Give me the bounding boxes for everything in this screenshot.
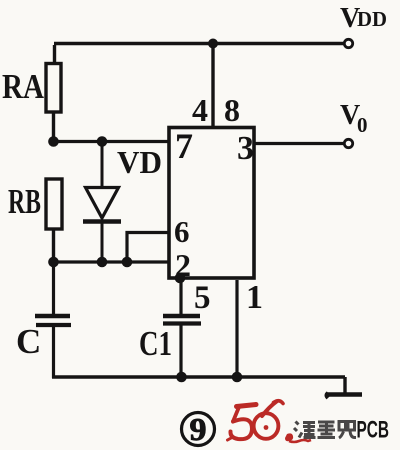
- svg-text:8: 8: [224, 92, 240, 128]
- node diode bottom: [97, 257, 108, 268]
- watermark red 6: [254, 401, 283, 439]
- watermark circled 9: [182, 411, 215, 447]
- watermark red squiggle: [289, 440, 311, 442]
- wire pin 3 to output: [254, 142, 344, 145]
- wire bottom rail: [52, 375, 345, 378]
- terminal VDD: [344, 39, 352, 47]
- node C1 bottom: [176, 372, 187, 383]
- node top junction: [208, 39, 218, 49]
- resistor RA: [46, 64, 61, 113]
- wire RB bottom to node B: [52, 229, 55, 263]
- node pin1 bottom: [232, 372, 243, 383]
- svg-text:VD: VD: [117, 144, 162, 180]
- ground: [327, 393, 363, 398]
- wire pin 5 to capacitor C1: [179, 278, 182, 314]
- svg-text:1: 1: [246, 279, 263, 316]
- svg-text:RA: RA: [2, 67, 45, 106]
- watermark red 5: [228, 405, 257, 441]
- wire top rail VDD: [54, 42, 344, 45]
- watermark gray glyph 3: [339, 422, 356, 439]
- svg-text:RB: RB: [8, 182, 41, 221]
- svg-text:DD: DD: [357, 7, 387, 31]
- node pin6 branch: [122, 257, 133, 268]
- svg-text:6: 6: [174, 214, 190, 249]
- wire pin 1 down: [235, 280, 238, 377]
- svg-text:0: 0: [357, 113, 368, 137]
- watermark gray glyph 2: [318, 422, 336, 438]
- svg-text:7: 7: [175, 126, 193, 166]
- watermark gray glyph 1: [294, 422, 316, 438]
- capacitor C: [35, 316, 71, 378]
- svg-text:PCB: PCB: [357, 417, 390, 444]
- watermark red comma: [285, 433, 293, 441]
- terminal V0: [344, 139, 352, 147]
- node diode top: [97, 136, 108, 147]
- node B: [48, 257, 59, 268]
- op-amp U1 (555 timer box): [169, 128, 254, 279]
- resistor RB: [46, 179, 62, 229]
- svg-text:9: 9: [190, 411, 207, 447]
- wire left rail top corner: [53, 45, 56, 64]
- wire ground drop: [343, 377, 346, 393]
- label V0: [340, 100, 368, 137]
- wire to pin 2: [54, 260, 171, 263]
- svg-text:C1: C1: [139, 324, 172, 363]
- svg-text:5: 5: [194, 280, 211, 316]
- diode VD: [83, 142, 121, 264]
- wire to pin 6: [127, 233, 169, 263]
- label VDD: [340, 3, 387, 34]
- wire RA bottom to node A: [52, 112, 55, 143]
- wire to pin 7: [54, 140, 170, 143]
- capacitor C1: [163, 316, 201, 378]
- wire left rail to capacitor C: [52, 262, 55, 314]
- wire drop from top rail to IC pins 4,8: [211, 44, 214, 129]
- svg-text:4: 4: [192, 92, 208, 128]
- svg-text:C: C: [16, 322, 41, 361]
- svg-text:3: 3: [237, 130, 254, 167]
- node A: [48, 136, 59, 147]
- node pin5 at box edge: [175, 273, 186, 284]
